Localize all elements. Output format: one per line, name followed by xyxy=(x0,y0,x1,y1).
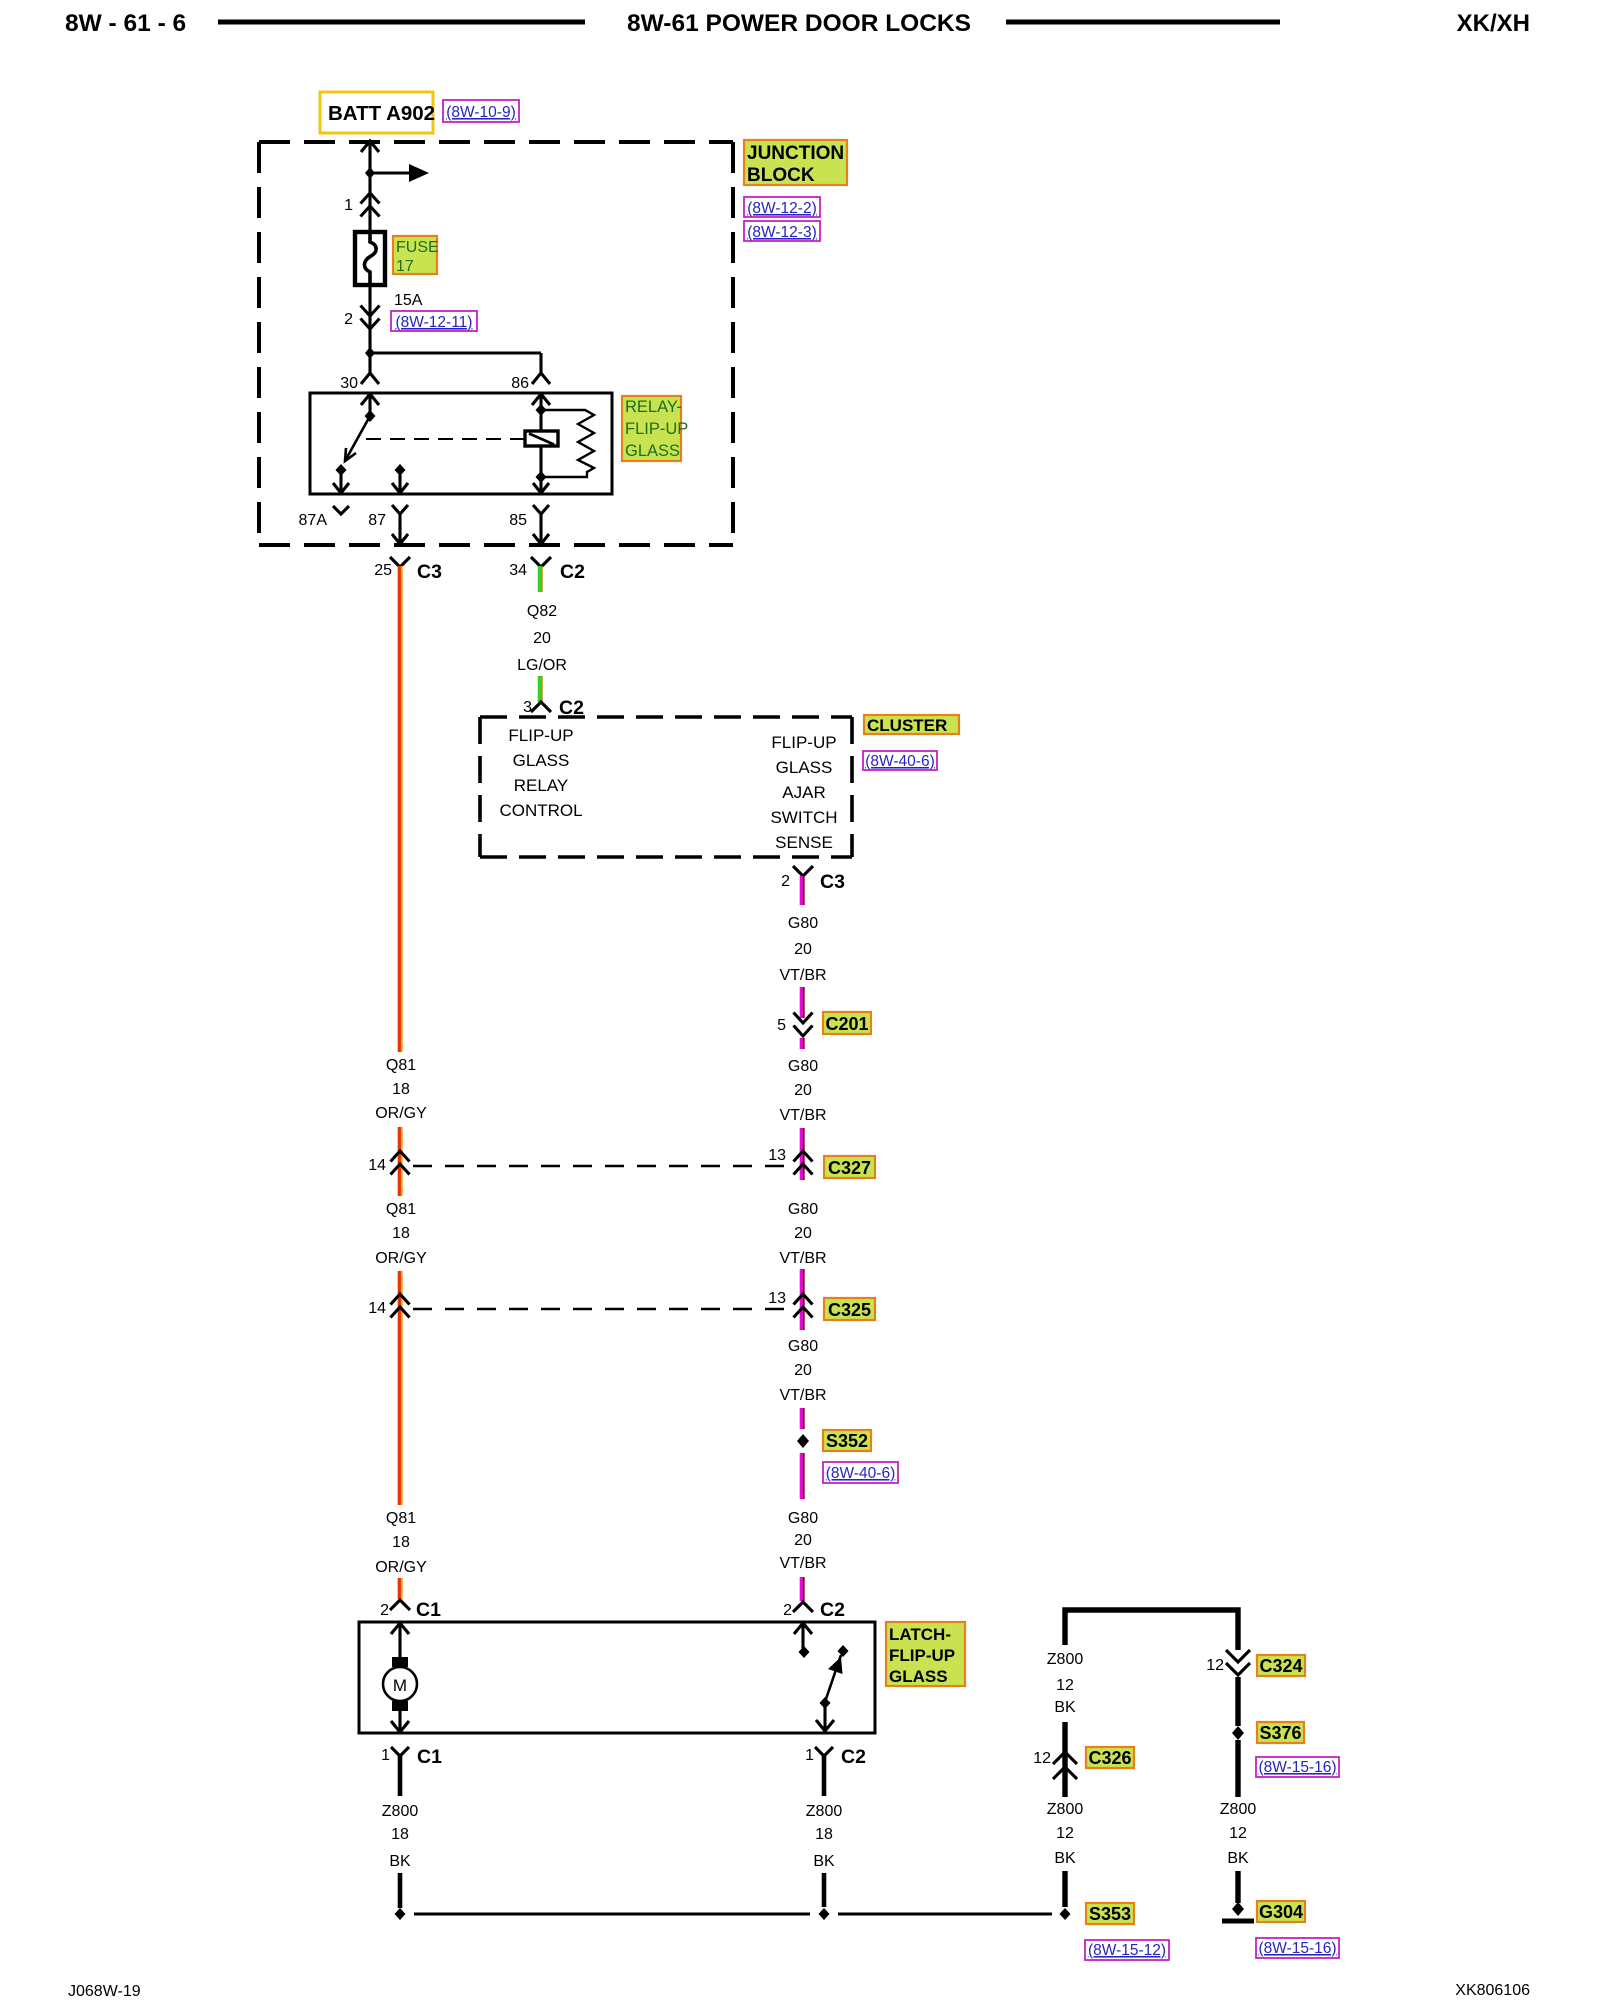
svg-text:8W - 61 - 6: 8W - 61 - 6 xyxy=(65,10,186,37)
svg-text:C201: C201 xyxy=(825,1014,868,1034)
svg-text:3: 3 xyxy=(523,699,532,716)
wire label Z800 12 BK lower left xyxy=(1047,1801,1084,1867)
svg-text:RELAY: RELAY xyxy=(514,776,569,795)
svg-text:C2: C2 xyxy=(560,561,585,583)
wire branch to relay coil pin 86 xyxy=(370,353,541,373)
wire label G80 20 VT/BR set B xyxy=(779,1058,826,1124)
latch flip-up glass box xyxy=(359,1622,875,1733)
junction block label xyxy=(744,140,847,186)
reference link 8W-15-12 xyxy=(1085,1940,1169,1960)
svg-text:Q81: Q81 xyxy=(386,1057,416,1074)
svg-text:C2: C2 xyxy=(841,1746,866,1768)
svg-text:GLASS: GLASS xyxy=(625,442,680,460)
svg-text:CLUSTER: CLUSTER xyxy=(867,716,947,735)
svg-text:Q82: Q82 xyxy=(527,603,557,620)
connector 13 C327 xyxy=(768,1147,875,1178)
wire Q81 18 OR/GY segment 4 xyxy=(399,1578,401,1599)
junction block dashed boundary xyxy=(259,142,733,545)
node ground junction left xyxy=(395,1908,406,1920)
svg-text:85: 85 xyxy=(509,512,527,529)
svg-text:FLIP-UP: FLIP-UP xyxy=(889,1646,955,1665)
svg-text:G304: G304 xyxy=(1259,1902,1303,1922)
svg-text:20: 20 xyxy=(794,941,812,958)
ground G304 symbol xyxy=(1222,1902,1254,1921)
pin 86 relay xyxy=(511,373,550,392)
wire G80 20 VT/BR segment 8 xyxy=(801,1577,803,1601)
svg-text:G80: G80 xyxy=(788,1058,818,1075)
svg-text:20: 20 xyxy=(794,1225,812,1242)
wire label Z800 18 BK right xyxy=(806,1803,843,1870)
wire G80 20 VT/BR segment 6 xyxy=(801,1408,803,1429)
svg-text:20: 20 xyxy=(794,1082,812,1099)
svg-text:(8W-12-2): (8W-12-2) xyxy=(747,200,816,217)
svg-text:LG/OR: LG/OR xyxy=(517,657,567,674)
svg-text:20: 20 xyxy=(794,1362,812,1379)
reference link 8W-15-16 G304 xyxy=(1256,1938,1339,1958)
svg-text:VT/BR: VT/BR xyxy=(779,1250,826,1267)
connector 1 C2 latch xyxy=(805,1746,866,1768)
wire ground bus right xyxy=(838,1912,1052,1915)
wire Z800 12 BK left segment xyxy=(1062,1722,1067,1797)
svg-text:C327: C327 xyxy=(828,1158,871,1178)
reference link 8W-15-16 S376 xyxy=(1256,1757,1339,1777)
header rule left xyxy=(218,20,585,25)
latch switch sense contact node xyxy=(799,1646,810,1658)
svg-text:34: 34 xyxy=(509,562,527,579)
svg-text:JUNCTION: JUNCTION xyxy=(747,143,844,164)
pin 85 relay below box xyxy=(509,505,549,544)
svg-text:18: 18 xyxy=(392,1534,410,1551)
relay label RELAY-FLIP-UP GLASS xyxy=(622,396,688,461)
reference link 8W-40-6 cluster xyxy=(863,751,937,770)
svg-text:18: 18 xyxy=(392,1225,410,1242)
wire label Z800 12 BK upper left xyxy=(1047,1651,1084,1716)
wire label Q82 20 LG/OR xyxy=(517,603,567,674)
svg-text:(8W-15-12): (8W-15-12) xyxy=(1088,1942,1166,1959)
connector 2 C2 latch xyxy=(783,1599,845,1621)
svg-text:C325: C325 xyxy=(828,1300,871,1320)
wire dashed in-line connector C327 xyxy=(413,1165,786,1168)
svg-text:BLOCK: BLOCK xyxy=(747,165,815,186)
svg-text:S376: S376 xyxy=(1259,1723,1301,1743)
node fuse output junction xyxy=(365,347,375,359)
svg-text:1: 1 xyxy=(344,197,353,214)
svg-text:Z800: Z800 xyxy=(1047,1801,1084,1818)
wire label G80 20 VT/BR set C xyxy=(779,1201,826,1267)
relay flip-up glass box xyxy=(310,393,612,494)
connector 5 C201 xyxy=(777,1012,871,1036)
header rule right xyxy=(1006,20,1280,25)
relay switch pivot node xyxy=(365,410,376,422)
connector 12 C324 xyxy=(1206,1650,1305,1676)
svg-text:VT/BR: VT/BR xyxy=(779,1555,826,1572)
svg-text:1: 1 xyxy=(381,1747,390,1764)
wire G80 20 VT/BR segment 5 xyxy=(801,1269,803,1330)
latch label LATCH-FLIP-UP GLASS xyxy=(886,1622,965,1686)
svg-text:OR/GY: OR/GY xyxy=(375,1105,427,1122)
wire label Z800 12 BK lower right xyxy=(1220,1801,1257,1867)
relay coil symbol xyxy=(525,394,558,478)
wire dashed in-line connector C325 xyxy=(413,1308,786,1311)
wire label Q81 18 OR/GY set 3 xyxy=(375,1510,427,1576)
splice S352 node xyxy=(797,1434,809,1448)
wire Z800 12 BK top bracket xyxy=(1065,1610,1238,1650)
wire Z800 12 BK left lower segment xyxy=(1062,1871,1067,1907)
svg-text:OR/GY: OR/GY xyxy=(375,1250,427,1267)
svg-text:AJAR: AJAR xyxy=(782,783,825,802)
relay control dashed link xyxy=(366,438,524,440)
cluster label xyxy=(864,715,959,735)
svg-text:2: 2 xyxy=(380,1602,389,1619)
wire Q81 18 OR/GY segment 1 xyxy=(399,566,401,1052)
reference link 8W-40-6 splice xyxy=(823,1462,898,1483)
node splice S353 xyxy=(1060,1908,1071,1920)
reference link 8W-12-3 xyxy=(744,221,820,241)
svg-text:Z800: Z800 xyxy=(1047,1651,1084,1668)
connector 1 C1 latch xyxy=(381,1746,442,1768)
connector 2 C3 cluster output xyxy=(781,866,845,893)
svg-text:RELAY-: RELAY- xyxy=(625,398,682,416)
svg-text:13: 13 xyxy=(768,1147,786,1164)
wire label Z800 18 BK left xyxy=(382,1803,419,1870)
svg-text:Z800: Z800 xyxy=(382,1803,419,1820)
svg-text:J068W-19: J068W-19 xyxy=(68,1983,141,2000)
svg-text:Q81: Q81 xyxy=(386,1510,416,1527)
latch switch pin arrow xyxy=(794,1623,812,1652)
svg-text:S352: S352 xyxy=(826,1431,868,1451)
relay coil bottom node xyxy=(536,471,547,483)
wire Z800 18 BK left segment 1 xyxy=(398,1756,403,1796)
connector 2 C1 latch xyxy=(380,1599,441,1621)
svg-text:20: 20 xyxy=(533,630,551,647)
svg-text:GLASS: GLASS xyxy=(889,1667,948,1686)
reference link 8W-12-11 xyxy=(391,311,477,331)
svg-text:BK: BK xyxy=(813,1853,835,1870)
wire Z800 12 BK right segment xyxy=(1235,1677,1240,1726)
relay coil top node xyxy=(536,404,547,416)
relay switch blade xyxy=(345,416,370,461)
connector 3 C2 cluster xyxy=(523,697,584,719)
wire G80 20 VT/BR segment 2 xyxy=(801,987,803,1018)
wire G80 20 VT/BR segment 7 xyxy=(801,1453,803,1499)
svg-text:OR/GY: OR/GY xyxy=(375,1559,427,1576)
ground G304 label xyxy=(1257,1901,1305,1922)
svg-text:G80: G80 xyxy=(788,1201,818,1218)
svg-text:C3: C3 xyxy=(417,561,442,583)
svg-text:BATT A902: BATT A902 xyxy=(328,102,435,125)
wire label G80 20 VT/BR set E xyxy=(779,1510,826,1572)
svg-text:VT/BR: VT/BR xyxy=(779,967,826,984)
svg-text:12: 12 xyxy=(1033,1750,1051,1767)
connector 14 of C327 xyxy=(368,1151,409,1175)
svg-text:(8W-40-6): (8W-40-6) xyxy=(826,1465,895,1482)
wire Q81 18 OR/GY segment 2 xyxy=(399,1127,401,1196)
svg-text:Q81: Q81 xyxy=(386,1201,416,1218)
svg-text:CONTROL: CONTROL xyxy=(499,801,582,820)
svg-text:12: 12 xyxy=(1056,1825,1074,1842)
wire relay 87A to box edge xyxy=(333,470,349,493)
wire branch arrow to other circuits xyxy=(370,164,429,182)
latch ajar switch blade xyxy=(826,1645,849,1699)
cluster pin function text flip-up glass ajar switch sense xyxy=(770,733,837,852)
svg-text:LATCH-: LATCH- xyxy=(889,1625,951,1644)
svg-text:18: 18 xyxy=(392,1081,410,1098)
svg-text:14: 14 xyxy=(368,1300,386,1317)
svg-text:C326: C326 xyxy=(1088,1748,1131,1768)
pin 2 junction block connector xyxy=(344,306,379,330)
svg-text:GLASS: GLASS xyxy=(776,758,833,777)
svg-text:2: 2 xyxy=(781,873,790,890)
wire ground bus left xyxy=(414,1912,810,1915)
svg-text:FLIP-UP: FLIP-UP xyxy=(771,733,836,752)
svg-text:VT/BR: VT/BR xyxy=(779,1387,826,1404)
cluster pin function text flip-up glass relay control xyxy=(499,726,582,820)
svg-text:87A: 87A xyxy=(299,512,328,529)
svg-text:G80: G80 xyxy=(788,1510,818,1527)
fuse 17 label xyxy=(393,236,439,275)
svg-text:86: 86 xyxy=(511,375,529,392)
wire G80 20 VT/BR segment 1 xyxy=(801,876,803,905)
svg-text:BK: BK xyxy=(389,1853,411,1870)
pin 87A relay below box xyxy=(299,506,349,529)
svg-text:12: 12 xyxy=(1206,1657,1224,1674)
wire label Q81 18 OR/GY set 1 xyxy=(375,1057,427,1122)
wire switch to latch box bottom xyxy=(816,1703,834,1731)
svg-text:5: 5 xyxy=(777,1017,786,1034)
motor M flip-up glass release xyxy=(383,1657,417,1711)
relay pin 87 internal node and arrow xyxy=(392,464,408,493)
svg-text:20: 20 xyxy=(794,1532,812,1549)
wire Z800 18 BK right segment 2 xyxy=(822,1873,827,1907)
connector 14 of C325 xyxy=(368,1294,409,1318)
wire label G80 20 VT/BR set A xyxy=(779,915,826,984)
svg-text:Z800: Z800 xyxy=(806,1803,843,1820)
pin 30 relay xyxy=(340,373,379,392)
wire motor to latch box bottom xyxy=(391,1711,409,1732)
svg-text:(8W-15-16): (8W-15-16) xyxy=(1258,1940,1336,1957)
svg-text:C1: C1 xyxy=(417,1746,442,1768)
svg-text:30: 30 xyxy=(340,375,358,392)
svg-text:GLASS: GLASS xyxy=(513,751,570,770)
splice S376 label xyxy=(1257,1722,1304,1743)
svg-text:C1: C1 xyxy=(416,1599,441,1621)
svg-text:G80: G80 xyxy=(788,915,818,932)
wire battery feed vertical into junction block xyxy=(361,141,379,232)
connector 12 C326 xyxy=(1033,1747,1134,1779)
wire Z800 12 BK to ground G304 xyxy=(1235,1871,1240,1903)
relay pin 30 internal arrow xyxy=(361,394,379,416)
svg-text:(8W-12-11): (8W-12-11) xyxy=(396,314,473,331)
wire relay pin 85 to box edge xyxy=(533,478,549,493)
svg-text:Z800: Z800 xyxy=(1220,1801,1257,1818)
svg-text:FUSE: FUSE xyxy=(396,239,439,256)
svg-text:SENSE: SENSE xyxy=(775,833,833,852)
svg-text:13: 13 xyxy=(768,1290,786,1307)
svg-text:1: 1 xyxy=(805,1747,814,1764)
svg-text:S353: S353 xyxy=(1089,1904,1131,1924)
wire Q82 20 LG/OR segment 2 xyxy=(539,676,541,702)
svg-text:C2: C2 xyxy=(820,1599,845,1621)
svg-text:14: 14 xyxy=(368,1157,386,1174)
svg-text:G80: G80 xyxy=(788,1338,818,1355)
splice S352 label xyxy=(823,1430,871,1451)
svg-text:12: 12 xyxy=(1229,1825,1247,1842)
wire label Q81 18 OR/GY set 2 xyxy=(375,1201,427,1267)
wire label G80 20 VT/BR set D xyxy=(779,1338,826,1404)
svg-text:18: 18 xyxy=(815,1826,833,1843)
pin 1 junction block connector xyxy=(344,193,379,217)
pin 87 relay below box xyxy=(368,505,408,544)
wire fuse output to relay xyxy=(368,284,371,373)
wire Z800 18 BK left segment 2 xyxy=(398,1873,403,1908)
cluster dashed boundary xyxy=(480,717,852,857)
svg-text:XK/XH: XK/XH xyxy=(1457,10,1530,37)
relay contact 87A node xyxy=(336,464,347,476)
reference link 8W-12-2 xyxy=(744,197,820,217)
svg-text:17: 17 xyxy=(396,258,414,275)
connector 34 C2 xyxy=(509,557,585,583)
latch motor pin arrow xyxy=(391,1623,409,1658)
wire Q81 18 OR/GY segment 3 xyxy=(399,1271,401,1505)
connector 13 C325 xyxy=(768,1290,875,1320)
splice S353 label xyxy=(1086,1903,1134,1924)
svg-text:15A: 15A xyxy=(394,292,423,309)
svg-text:BK: BK xyxy=(1054,1850,1076,1867)
svg-text:12: 12 xyxy=(1056,1677,1074,1694)
wire Z800 12 BK right lower segment xyxy=(1235,1740,1240,1797)
svg-text:(8W-12-3): (8W-12-3) xyxy=(747,224,816,241)
svg-text:C3: C3 xyxy=(820,871,845,893)
svg-text:XK806106: XK806106 xyxy=(1455,1982,1530,1999)
svg-text:2: 2 xyxy=(344,311,353,328)
splice S376 node xyxy=(1232,1726,1244,1740)
node battery feed junction xyxy=(365,167,375,179)
svg-text:(8W-15-16): (8W-15-16) xyxy=(1258,1759,1336,1776)
svg-text:18: 18 xyxy=(391,1826,409,1843)
wire Z800 18 BK right segment 1 xyxy=(822,1756,827,1796)
wire G80 20 VT/BR segment 3 xyxy=(801,1038,803,1049)
svg-text:FLIP-UP: FLIP-UP xyxy=(625,420,688,438)
wire Q82 20 LG/OR segment 1 xyxy=(539,566,541,592)
svg-text:M: M xyxy=(393,1676,407,1695)
node ground junction center xyxy=(819,1908,830,1920)
svg-text:VT/BR: VT/BR xyxy=(779,1107,826,1124)
relay suppression resistor xyxy=(541,410,594,477)
svg-text:(8W-40-6): (8W-40-6) xyxy=(865,753,934,770)
latch switch lower contact node xyxy=(820,1697,831,1709)
wire G80 20 VT/BR segment 4 xyxy=(801,1128,803,1180)
svg-text:25: 25 xyxy=(374,562,392,579)
svg-text:BK: BK xyxy=(1054,1699,1076,1716)
fuse 17 symbol xyxy=(355,231,385,285)
svg-text:87: 87 xyxy=(368,512,386,529)
reference link 8W-10-9 xyxy=(443,100,519,122)
node BATT A902 feed label xyxy=(320,92,435,133)
svg-text:C324: C324 xyxy=(1259,1656,1302,1676)
svg-text:BK: BK xyxy=(1227,1850,1249,1867)
svg-text:FLIP-UP: FLIP-UP xyxy=(508,726,573,745)
svg-text:SWITCH: SWITCH xyxy=(770,808,837,827)
svg-text:2: 2 xyxy=(783,1602,792,1619)
svg-text:(8W-10-9): (8W-10-9) xyxy=(446,104,515,121)
connector 25 C3 xyxy=(374,557,442,583)
svg-text:8W-61 POWER DOOR LOCKS: 8W-61 POWER DOOR LOCKS xyxy=(627,10,971,37)
